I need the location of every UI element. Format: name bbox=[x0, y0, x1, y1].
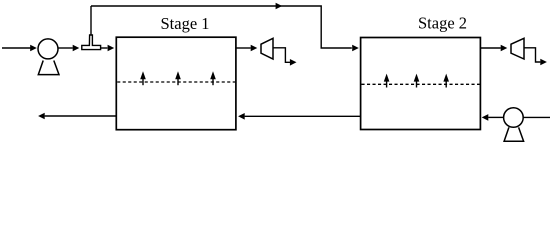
wire stage 2 to stage 1 recycle bbox=[238, 113, 360, 120]
pump P1 bbox=[38, 39, 59, 75]
wire feed inlet bbox=[2, 45, 37, 52]
pump P2 bbox=[504, 108, 524, 142]
svg-text:Stage 2: Stage 2 bbox=[418, 14, 467, 33]
wire riser from tee to bypass bbox=[90, 6, 92, 36]
wire stage 2 vapor outlet bbox=[481, 45, 508, 52]
wire expander E1 outlet bbox=[273, 48, 297, 66]
stage 2 vessel bbox=[361, 38, 481, 130]
wire bypass top run bbox=[91, 3, 359, 52]
svg-text:Stage 1: Stage 1 bbox=[161, 14, 210, 33]
wire pump P1 outlet bbox=[58, 45, 79, 52]
wire pump P2 to stage 2 bbox=[482, 114, 504, 121]
vapor arrow stage 2 a bbox=[384, 74, 390, 88]
dashed interface line stage 2 bbox=[362, 83, 480, 85]
stage 1 vessel bbox=[116, 37, 236, 130]
expander E2 bbox=[511, 38, 524, 59]
vapor arrow stage 2 b bbox=[414, 74, 420, 88]
wire stage 1 liquid outlet bbox=[38, 113, 116, 120]
vapor arrow stage 1 c bbox=[210, 71, 216, 85]
wire stage 1 vapor outlet bbox=[236, 45, 257, 52]
vapor arrow stage 1 b bbox=[175, 71, 181, 85]
tee junction T1 bbox=[82, 35, 101, 50]
expander E1 bbox=[261, 38, 273, 59]
wire tee to stage 1 bbox=[101, 45, 115, 52]
dashed interface line stage 1 bbox=[117, 81, 235, 83]
vapor arrow stage 1 a bbox=[140, 71, 146, 85]
wire feed to pump P2 bbox=[523, 116, 550, 118]
vapor arrow stage 2 c bbox=[443, 74, 449, 88]
wire expander E2 outlet bbox=[524, 48, 547, 66]
